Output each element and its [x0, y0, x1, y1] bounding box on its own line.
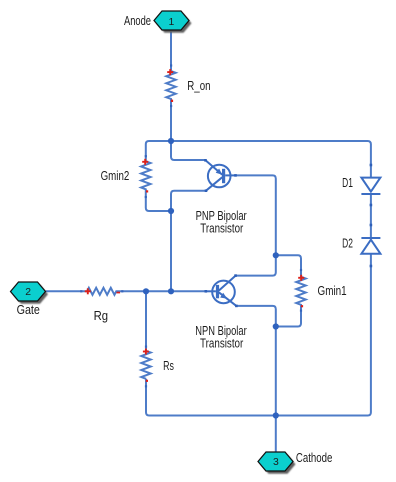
svg-text:Transistor: Transistor	[200, 336, 243, 350]
svg-text:Rs: Rs	[163, 359, 174, 373]
svg-text:1: 1	[169, 17, 175, 28]
svg-text:Anode: Anode	[124, 14, 151, 28]
svg-text:2: 2	[25, 287, 31, 298]
svg-text:Gmin1: Gmin1	[318, 284, 347, 298]
svg-text:3: 3	[273, 457, 279, 468]
svg-text:R_on: R_on	[187, 79, 210, 93]
svg-text:Gmin2: Gmin2	[101, 169, 130, 183]
svg-text:Rg: Rg	[94, 309, 109, 323]
svg-text:Transistor: Transistor	[200, 221, 243, 235]
svg-text:Cathode: Cathode	[296, 451, 333, 465]
svg-text:Gate: Gate	[17, 303, 40, 317]
svg-text:D1: D1	[342, 176, 353, 190]
svg-text:D2: D2	[342, 237, 353, 251]
